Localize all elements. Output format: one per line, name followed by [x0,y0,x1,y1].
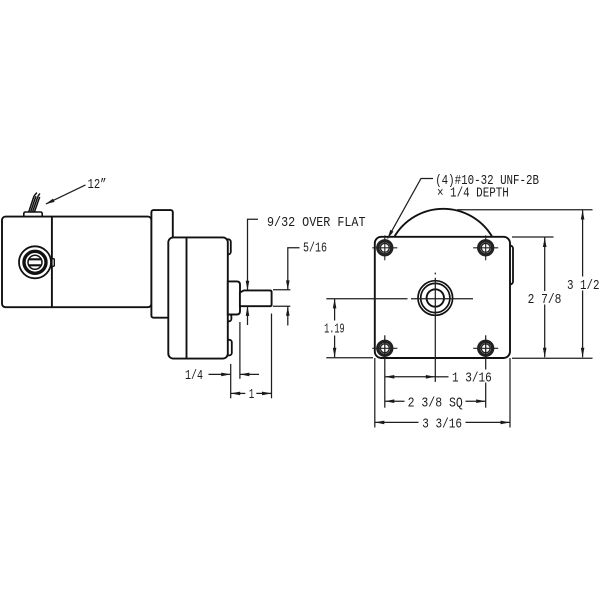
svg-text:5/16: 5/16 [303,240,327,256]
svg-text:3 3/16: 3 3/16 [422,417,462,433]
svg-text:2 3/8 SQ: 2 3/8 SQ [408,395,463,411]
svg-text:1.19: 1.19 [324,321,345,337]
svg-text:3 1/2: 3 1/2 [567,278,600,294]
svg-text:1 3/16: 1 3/16 [452,371,492,387]
svg-text:9/32 OVER FLAT: 9/32 OVER FLAT [267,215,366,231]
svg-text:12”: 12” [88,177,107,193]
svg-text:1: 1 [249,387,255,403]
svg-text:1/4: 1/4 [185,368,203,384]
svg-text:× 1/4 DEPTH: × 1/4 DEPTH [437,185,509,201]
svg-text:2 7/8: 2 7/8 [528,292,562,308]
